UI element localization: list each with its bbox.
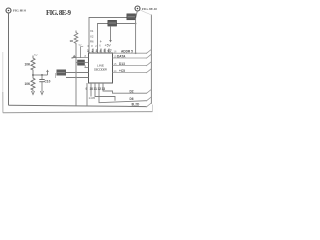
wire vertical right of L1 down to pin16 line	[135, 18, 137, 53]
IC right wire pin 13	[113, 72, 147, 74]
IC right wire pin 15	[113, 57, 147, 59]
svg-text:1: 1	[87, 49, 89, 53]
component R5 (box between rail and IC left)	[78, 60, 85, 65]
wire node stub down	[136, 11, 138, 18]
svg-text:4: 4	[100, 49, 102, 53]
wire crystal bottom to IC	[66, 77, 89, 79]
svg-text:10K: 10K	[25, 63, 32, 67]
svg-text:2: 2	[92, 49, 94, 53]
svg-text:R6: R6	[90, 40, 94, 44]
capacitor C10	[41, 74, 43, 76]
svg-text:D13: D13	[119, 62, 125, 66]
svg-text:+5V: +5V	[105, 44, 112, 48]
wire node to bus diagonal	[141, 10, 152, 15]
svg-text:X1: X1	[90, 29, 94, 33]
bus merge diagonal bottom	[146, 103, 151, 107]
IC right wire pin 14	[113, 65, 147, 67]
border frame left	[2, 52, 4, 113]
wire crystal top to IC	[66, 72, 89, 74]
IC top pin stubs	[92, 49, 94, 54]
svg-text:C10: C10	[45, 80, 51, 84]
junction dots rail	[75, 72, 77, 74]
resistor R3 on rail	[74, 31, 78, 46]
wire branch up from pin wire	[80, 47, 82, 58]
crystal stub	[55, 73, 57, 78]
svg-text:X2: X2	[90, 35, 94, 39]
svg-text:DECODER: DECODER	[94, 68, 108, 72]
resistor R1 10K	[31, 56, 35, 76]
svg-text:7: 7	[110, 49, 112, 53]
svg-text:FIG. 8E-10: FIG. 8E-10	[142, 7, 157, 11]
wire top B horizontal	[98, 24, 136, 54]
IC bottom wire pin at x87 to bus	[86, 83, 88, 106]
svg-text:8L2D: 8L2D	[132, 102, 140, 106]
IC bottom wire x103 L to bus	[103, 83, 147, 93]
svg-text:DATA: DATA	[117, 54, 126, 58]
IC left arrow on pin wire	[72, 55, 76, 59]
svg-text:FIG. 8E-9: FIG. 8E-9	[46, 9, 72, 17]
up arrow at end	[47, 72, 49, 76]
wire bottom bus	[9, 105, 147, 106]
arrowhead down on +5V drop	[109, 40, 112, 43]
svg-text:5: 5	[104, 49, 106, 53]
junction dot wire B at bus vertical	[135, 23, 137, 25]
IC bottom wire x91	[90, 83, 92, 97]
junction bus vertical at pin16 wire	[135, 52, 137, 54]
left vertical rail to bottom bus	[75, 45, 77, 107]
connector node to FIG. 8E-8 (top left)	[6, 8, 11, 13]
wire top A horizontal	[89, 18, 127, 54]
svg-text:5V: 5V	[34, 53, 38, 57]
IC U1 line decoder	[89, 53, 113, 83]
wire cap to ground	[41, 82, 43, 92]
svg-text:D6: D6	[130, 97, 134, 101]
resistor R2 10K	[31, 75, 35, 92]
svg-text:1405: 1405	[89, 96, 96, 100]
wire junction to cap / arrow	[33, 74, 48, 76]
svg-text:10K: 10K	[25, 82, 32, 86]
border frame right stub	[152, 105, 154, 112]
ground arrow under C10	[41, 91, 44, 95]
connector node to FIG. 8E-10 (top right)	[135, 6, 140, 11]
wire +5V drop from L2	[110, 26, 112, 41]
wire left vertical from node to bottom bus	[8, 13, 10, 105]
IC right wire pin 16	[113, 52, 147, 54]
IC bottom wire x99 L to bus	[99, 83, 147, 103]
border frame bottom	[3, 112, 153, 113]
ground arrow under R2	[32, 91, 35, 95]
svg-text:ADDR 5: ADDR 5	[121, 49, 133, 53]
IC bottom wire x95 L	[95, 83, 115, 101]
svg-text:+C5: +C5	[119, 69, 125, 73]
component L1 (box on wire A)	[127, 14, 136, 20]
svg-text:FIG. 8E-8: FIG. 8E-8	[13, 9, 26, 13]
svg-text:D2: D2	[130, 89, 134, 93]
IC left pin stub y67.5	[85, 67, 89, 69]
svg-text:5V: 5V	[79, 44, 82, 47]
wire IC left pin y57.5	[72, 57, 89, 59]
component L2 (box on wire B)	[108, 20, 117, 26]
crystal Y1 (box at left)	[57, 70, 67, 76]
svg-text:3: 3	[96, 49, 98, 53]
bus vertical right	[150, 15, 152, 104]
